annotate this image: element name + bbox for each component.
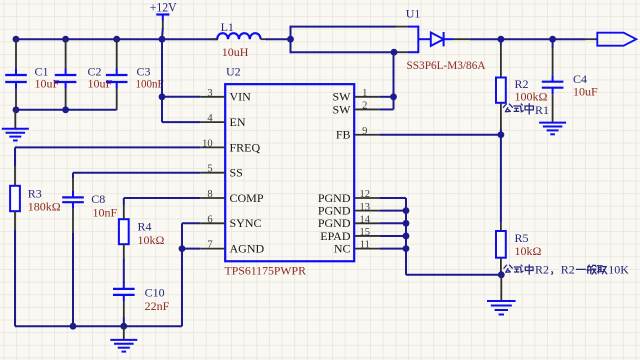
wire PGND12: [379, 197, 406, 199]
svg-text:C10: C10: [145, 286, 165, 300]
op-amp U2 body: [225, 65, 355, 278]
wire FREQ: [15, 147, 200, 166]
node rail-C2: [62, 36, 69, 43]
wire COMP: [124, 198, 201, 205]
node bus-C10: [120, 323, 127, 330]
node gnd-C1: [13, 106, 20, 113]
svg-text:15: 15: [360, 227, 371, 238]
node PGND11: [403, 245, 410, 252]
svg-text:SS: SS: [230, 166, 243, 180]
wire C8 to bus: [72, 233, 74, 326]
resistor R2: [496, 39, 548, 135]
node out-C4: [549, 36, 556, 43]
svg-text:TPS61175PWPR: TPS61175PWPR: [225, 264, 307, 278]
svg-text:10kΩ: 10kΩ: [138, 233, 165, 247]
node rail-C3: [113, 36, 120, 43]
node AGND: [179, 245, 186, 252]
wire FB to R5: [500, 135, 502, 223]
capacitor C3: [106, 39, 164, 110]
resistor R5: [496, 223, 542, 275]
node out-R2: [498, 36, 505, 43]
pin 14 PGND: [318, 214, 379, 230]
wire EN: [162, 121, 200, 123]
svg-text:10K: 10K: [608, 263, 629, 277]
node VIN: [159, 93, 166, 100]
wire R3 to bus: [14, 230, 16, 326]
power port +12V: [150, 1, 177, 40]
svg-text:R2: R2: [561, 263, 575, 277]
svg-text:FREQ: FREQ: [230, 140, 261, 154]
wire +12V rail: [16, 38, 218, 40]
node SW: [390, 93, 397, 100]
svg-text:6: 6: [207, 214, 212, 225]
wire loop bottom: [291, 51, 408, 53]
resistor R4: [119, 205, 165, 259]
pin 2 SW: [333, 101, 380, 117]
svg-text:8: 8: [207, 189, 212, 200]
wire analog ground bus: [15, 325, 182, 327]
capacitor C4: [542, 39, 598, 122]
node rail-C1: [13, 36, 20, 43]
svg-text:7: 7: [207, 240, 212, 251]
svg-text:10uF: 10uF: [88, 77, 113, 91]
wire cap ground rail: [16, 109, 117, 111]
wire R4 to C10: [123, 259, 125, 284]
wire PGND riser: [405, 198, 407, 275]
svg-text:10uF: 10uF: [573, 85, 598, 99]
wire SW riser: [393, 52, 395, 109]
wire FB: [379, 134, 501, 136]
ground C4: [539, 123, 566, 135]
svg-text:U1: U1: [406, 7, 421, 21]
svg-text:R3: R3: [28, 186, 42, 200]
node PGND15: [403, 233, 410, 240]
svg-text:100nF: 100nF: [136, 77, 164, 91]
svg-text:4: 4: [207, 113, 213, 124]
label formula R1: [503, 103, 549, 117]
svg-text:FB: FB: [336, 128, 351, 142]
capacitor C1: [5, 39, 59, 110]
capacitor C8: [62, 178, 117, 233]
wire SW1: [379, 96, 393, 98]
svg-text:10kΩ: 10kΩ: [515, 244, 542, 258]
wire EPAD: [379, 235, 406, 237]
svg-text:100kΩ: 100kΩ: [515, 90, 548, 104]
svg-text:10nF: 10nF: [93, 206, 118, 220]
pin 13 PGND: [318, 202, 379, 218]
node loop-in: [287, 36, 294, 43]
diode U1: [406, 7, 486, 72]
wire VIN feed: [161, 39, 163, 122]
ground input: [2, 110, 29, 141]
svg-text:5: 5: [207, 164, 212, 175]
wire C10 to bus: [123, 317, 125, 326]
wire diode to output: [453, 38, 585, 40]
resistor R3: [10, 166, 61, 230]
wire L1 to loop: [266, 38, 291, 40]
svg-text:SW: SW: [333, 102, 352, 116]
svg-text:12: 12: [360, 189, 371, 200]
svg-text:2: 2: [362, 101, 367, 112]
svg-text:3: 3: [207, 88, 212, 99]
pin 15 EPAD: [320, 227, 379, 243]
wire SYNC: [182, 222, 200, 224]
wire PGND to R5: [406, 274, 501, 276]
pin 1 SW: [333, 88, 380, 104]
pin 7 AGND: [200, 240, 264, 256]
node gnd-C2: [62, 106, 69, 113]
node R5-PGND: [498, 271, 505, 278]
svg-text:R2: R2: [535, 263, 549, 277]
node loop-SW: [391, 49, 398, 56]
svg-text:SYNC: SYNC: [230, 216, 262, 230]
svg-text:22nF: 22nF: [145, 299, 170, 313]
svg-text:13: 13: [360, 202, 371, 213]
pin 11 NC: [334, 240, 379, 256]
svg-text:C8: C8: [91, 192, 105, 206]
pin 8 COMP: [200, 189, 264, 205]
node rail-12V: [159, 36, 166, 43]
wire PGND14: [379, 222, 406, 224]
ground analog: [110, 326, 137, 351]
svg-text:AGND: AGND: [230, 242, 265, 256]
capacitor C10: [113, 282, 170, 317]
svg-text:R1: R1: [535, 103, 549, 117]
svg-text:10uF: 10uF: [35, 77, 60, 91]
pin 6 SYNC: [200, 214, 261, 230]
node bus-C8: [70, 323, 77, 330]
pin 9 FB: [336, 126, 379, 142]
wire NC: [379, 248, 406, 250]
svg-text:U2: U2: [226, 65, 241, 79]
node PGND14: [403, 220, 410, 227]
svg-text:COMP: COMP: [230, 191, 264, 205]
svg-text:14: 14: [360, 214, 371, 225]
pin 5 SS: [200, 164, 243, 180]
wire AGND: [182, 248, 200, 250]
label formula R2: [504, 263, 629, 277]
wire loop left: [290, 26, 292, 54]
svg-text:180kΩ: 180kΩ: [28, 200, 61, 214]
svg-text:9: 9: [362, 126, 367, 137]
capacitor C2: [55, 39, 113, 110]
node FB: [498, 131, 505, 138]
wire PGND13: [379, 210, 406, 212]
svg-text:L1: L1: [221, 20, 234, 34]
wire SW2: [379, 108, 393, 110]
svg-text:10uH: 10uH: [222, 45, 249, 59]
svg-text:NC: NC: [334, 242, 351, 256]
wire SYNC down: [181, 223, 183, 326]
wire VIN: [162, 96, 200, 98]
pin 10 FREQ: [200, 138, 260, 154]
inductor L1: [211, 20, 267, 59]
pin 12 PGND: [318, 189, 379, 205]
pin 4 EN: [200, 113, 246, 129]
svg-text:R4: R4: [138, 220, 152, 234]
svg-text:VIN: VIN: [230, 90, 252, 104]
wire SS: [73, 173, 200, 178]
svg-text:1: 1: [362, 88, 367, 99]
port VOUT: [585, 33, 636, 46]
wire loop top: [291, 26, 408, 28]
svg-text:11: 11: [360, 240, 370, 251]
svg-text:SS3P6L-M3/86A: SS3P6L-M3/86A: [407, 58, 486, 72]
svg-text:10: 10: [202, 138, 213, 149]
svg-text:+12V: +12V: [150, 1, 177, 15]
pin 3 VIN: [200, 88, 251, 104]
node PGND13: [403, 207, 410, 214]
ground output: [487, 275, 516, 315]
svg-text:EN: EN: [230, 115, 246, 129]
